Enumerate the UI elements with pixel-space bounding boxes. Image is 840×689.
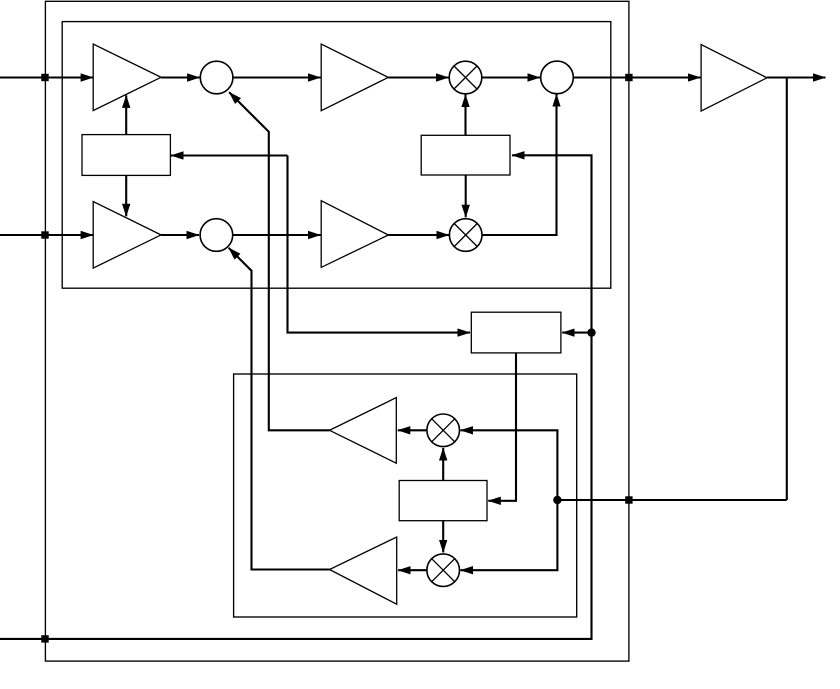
summer S3 <box>541 61 574 94</box>
wire B1 path to B3 <box>288 156 471 333</box>
inner bottom enclosure frame <box>234 374 577 617</box>
inner top enclosure frame <box>62 22 611 289</box>
block B4 <box>399 481 487 521</box>
wire B1 to A1 control <box>125 95 127 134</box>
node square output <box>625 74 632 81</box>
wire input 2 <box>0 234 93 236</box>
wire junction to M4 <box>461 500 558 570</box>
wire A6 to S1 <box>229 92 329 430</box>
wire output tap down <box>786 78 788 501</box>
wire B3 to B4 <box>488 353 516 501</box>
wire B4 to M4 control <box>442 521 444 553</box>
wire M2 to S3 <box>482 94 557 235</box>
node junction feedback <box>553 496 561 504</box>
multiplier M1 <box>449 61 482 94</box>
amplifier A5 output <box>701 45 767 112</box>
node junction to B3 <box>587 328 595 336</box>
wire S1 to A3 <box>233 76 321 78</box>
wire feedback from output <box>557 499 786 501</box>
wire bottom input to B2 <box>0 155 592 639</box>
summer S2 <box>200 219 233 252</box>
wire A4 to M2 <box>388 234 449 236</box>
summer S1 <box>200 61 233 94</box>
wire A1 to S1 <box>161 76 200 78</box>
wire feed to B1 <box>171 154 288 156</box>
wire B2 to M1 control <box>464 95 466 136</box>
block B2 <box>421 135 510 175</box>
block B1 <box>82 135 170 176</box>
node square bottom input <box>41 635 48 642</box>
outer enclosure frame <box>45 1 629 661</box>
wire M1 to S3 <box>482 76 540 78</box>
multiplier M3 <box>427 414 460 447</box>
wire B4 to M3 control <box>442 448 444 481</box>
node square input 2 <box>41 231 48 238</box>
wire S3 to A5 <box>573 76 700 78</box>
amplifier A1 <box>93 44 161 111</box>
node square input 1 <box>41 74 48 81</box>
wire input 1 <box>0 76 93 78</box>
wire A3 to M1 <box>388 76 448 78</box>
amplifier A4 <box>321 201 388 268</box>
amplifier A3 <box>321 44 388 111</box>
wire M3 to A6 <box>398 429 427 431</box>
wire junction to M3 <box>461 430 558 500</box>
amplifier A6 reverse <box>330 398 397 464</box>
amplifier A2 <box>93 202 161 269</box>
wire S2 to A4 <box>233 234 321 236</box>
block B3 <box>471 312 561 353</box>
wire output <box>767 76 826 78</box>
wire B1 to A2 control <box>125 175 127 216</box>
wire B2 to M2 control <box>465 175 467 217</box>
wire junction to B3 <box>562 332 591 334</box>
node square feedback <box>625 496 632 503</box>
wire M4 to A7 <box>398 569 427 571</box>
wire A7 to S2 <box>229 248 330 570</box>
amplifier A7 reverse <box>330 537 397 604</box>
wire A2 to S2 <box>161 234 199 236</box>
multiplier M4 <box>427 554 460 587</box>
multiplier M2 <box>449 219 482 252</box>
